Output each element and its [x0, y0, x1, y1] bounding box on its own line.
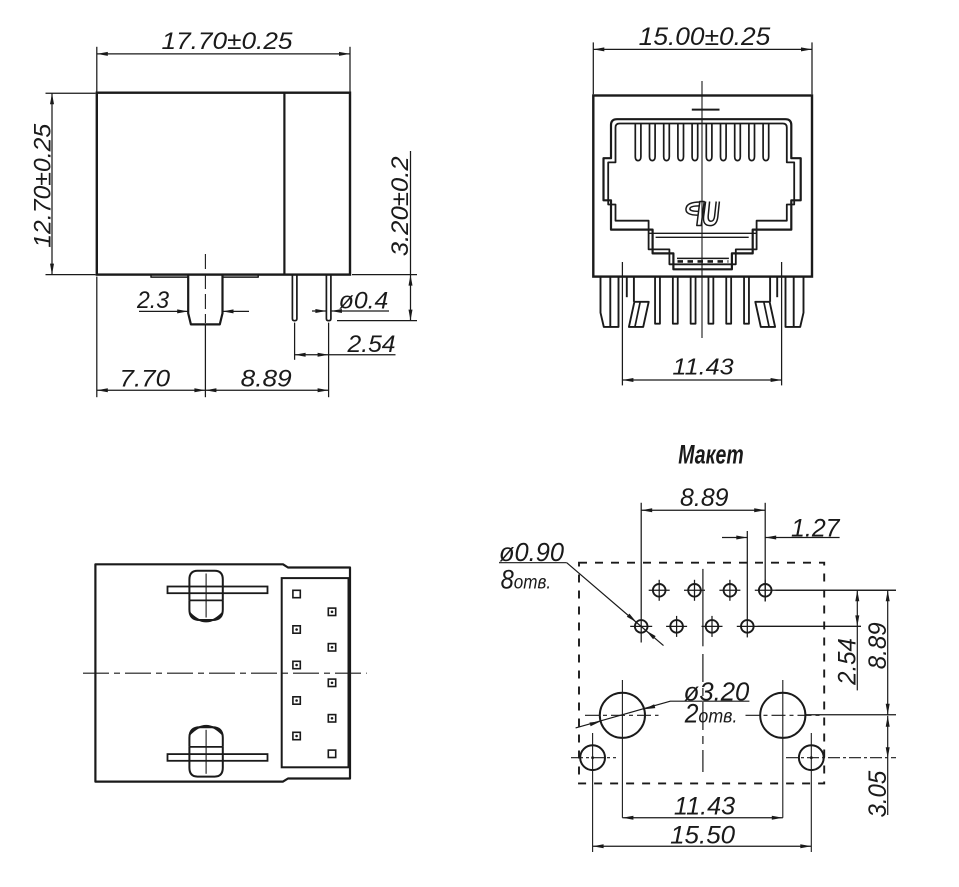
front view: straight contact legs: [655, 277, 749, 324]
bottom view: pin pads: [293, 590, 336, 757]
svg-text:ø0.4: ø0.4: [339, 288, 389, 315]
svg-text:2.54: 2.54: [834, 638, 862, 686]
layout: vertical centerline: [702, 569, 704, 772]
side view: snap-in mounting peg: [188, 275, 222, 325]
svg-text:11.43: 11.43: [674, 793, 735, 821]
dimension 8.89 (peg to pin): [205, 325, 328, 397]
svg-text:8.89: 8.89: [241, 365, 292, 392]
layout: ø0.90 holes (8x) with crosshairs: [630, 580, 896, 637]
svg-text:8.89: 8.89: [864, 622, 892, 669]
front view: shield body outline: [593, 96, 812, 277]
svg-text:15.50: 15.50: [670, 821, 735, 849]
svg-text:3.20±0.2: 3.20±0.2: [387, 156, 414, 256]
front view: top orientation tick: [692, 109, 720, 111]
dimension 8.89 right (rows to big holes): [806, 590, 896, 715]
svg-text:Макет: Макет: [678, 439, 743, 469]
front view: shield leg wide left: [601, 277, 619, 327]
layout: PCB outline dashed: [579, 563, 824, 784]
svg-text:11.43: 11.43: [672, 354, 733, 380]
layout: ø3.20 hole left with centerlines: [585, 680, 659, 818]
dimension 3.20±0.2 (pin length): [337, 151, 417, 321]
svg-text:7.70: 7.70: [120, 365, 171, 392]
leader ø0.90 8 holes: [499, 537, 664, 646]
leader ø3.20 2 holes: [576, 677, 750, 729]
front view: latch window tab: [677, 258, 729, 261]
front view: jack opening inner contour: [608, 124, 794, 265]
front view: contact comb teeth: [635, 124, 768, 161]
side view: bottom lip right: [223, 275, 259, 278]
bottom view: mounting post upper: [168, 571, 268, 622]
dimension 2.54 (pin pitch): [295, 323, 396, 398]
side view: connector body: [97, 93, 350, 275]
layout title: Макет: [678, 439, 743, 469]
dimension 8.89 top (hole group width): [641, 484, 765, 643]
layout: corner hole right: [786, 733, 896, 852]
svg-text:3.05: 3.05: [864, 771, 892, 818]
dimension 2.3 (peg width): [136, 287, 249, 314]
dimension 2.54 right (row spacing): [758, 590, 897, 690]
front view: shield leg wide right: [786, 277, 804, 327]
front view: contact leg hooked left: [627, 277, 649, 327]
layout: ø3.20 hole right with centerlines: [746, 680, 823, 818]
dimension 3.05 (big holes to corner holes): [864, 716, 892, 818]
front view: opening back wall lines: [649, 233, 757, 237]
dimension 17.70±0.25 (body width): [97, 28, 350, 92]
dimension ø0.4 (pin diameter): [312, 288, 389, 315]
front view: jack opening outer contour: [604, 119, 801, 269]
svg-text:17.70±0.25: 17.70±0.25: [162, 28, 293, 55]
side view: bottom lip left: [151, 275, 188, 278]
svg-text:2.3: 2.3: [136, 287, 169, 314]
svg-text:2.54: 2.54: [346, 331, 395, 358]
dimension 7.70 (peg position): [97, 277, 206, 398]
layout: corner hole left: [571, 733, 616, 852]
bottom view: body outline: [95, 564, 350, 781]
svg-text:1.27: 1.27: [791, 515, 841, 543]
front view: vertical centerline: [701, 81, 703, 338]
front view: contact leg hooked right: [755, 277, 777, 327]
bottom view: mounting post lower (mirrored): [168, 726, 268, 777]
side view: solder pin right: [326, 275, 331, 321]
dimension 11.43 bottom (big hole spacing): [622, 793, 782, 821]
front view: mirrored UP marking: [686, 202, 719, 226]
dimension 12.70±0.25 (body height): [29, 93, 95, 274]
dimension 15.50 (corner hole spacing): [593, 821, 812, 849]
side view: peg dashed centerline: [204, 254, 206, 323]
svg-text:8.89: 8.89: [680, 484, 729, 512]
bottom view: horizontal centerline: [83, 672, 367, 674]
dimension 1.27 (hole row offset): [722, 515, 841, 638]
dimension 15.00±0.25 (shield width): [593, 23, 812, 94]
bottom view: pin block: [282, 578, 349, 767]
svg-text:12.70±0.25: 12.70±0.25: [29, 123, 56, 247]
dimension 11.43 (front leg span): [622, 262, 781, 385]
svg-text:15.00±0.25: 15.00±0.25: [639, 23, 771, 51]
side view: front face edge line: [283, 93, 285, 275]
side view: solder pin left: [292, 275, 297, 321]
